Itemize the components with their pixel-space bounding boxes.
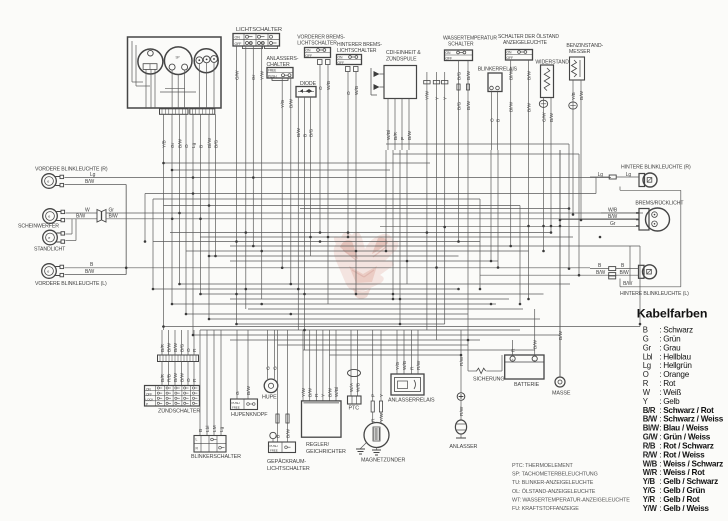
svg-text:HINTERER BREMS-: HINTERER BREMS-: [337, 42, 382, 48]
svg-text:SP: TACHOMETERBELEUCHTUNG: SP: TACHOMETERBELEUCHTUNG: [512, 472, 598, 478]
svg-text:W/R: W/R: [643, 468, 658, 477]
svg-text:Gelb / Schwarz: Gelb / Schwarz: [663, 477, 718, 486]
svg-text:R/B: R/B: [166, 374, 172, 382]
svg-text::: :: [659, 361, 661, 370]
svg-text:Orange: Orange: [663, 370, 690, 379]
svg-text:ON: ON: [146, 387, 151, 391]
svg-text:B/R: B/R: [393, 131, 399, 140]
svg-text:OFF: OFF: [446, 57, 453, 61]
svg-text:ZÜNDSCHALTER: ZÜNDSCHALTER: [158, 407, 200, 414]
svg-text:ON: ON: [446, 51, 452, 55]
svg-text:GEICHRICHTER: GEICHRICHTER: [306, 449, 346, 455]
svg-text:Lg: Lg: [191, 142, 197, 148]
svg-text:B/W: B/W: [285, 428, 291, 438]
svg-text:R/W: R/W: [643, 450, 658, 459]
svg-text:B/W: B/W: [643, 415, 658, 424]
svg-text:G/W: G/W: [643, 433, 659, 442]
svg-text:ANZEIGELEUCHTE: ANZEIGELEUCHTE: [503, 40, 548, 46]
svg-text:Schwarz: Schwarz: [663, 326, 693, 335]
svg-text:R/W: R/W: [416, 360, 422, 370]
svg-text:LICHTSCHALTER: LICHTSCHALTER: [267, 466, 310, 472]
svg-text:G: G: [235, 391, 241, 395]
svg-text:Lg: Lg: [219, 426, 225, 432]
svg-text:Y/G: Y/G: [395, 361, 401, 370]
svg-text::: :: [659, 459, 661, 468]
svg-text:Blau / Weiss: Blau / Weiss: [663, 424, 709, 433]
svg-text:B/G: B/G: [456, 101, 462, 110]
svg-text:Y/W: Y/W: [379, 412, 385, 422]
svg-text:Y/W: Y/W: [643, 504, 658, 513]
svg-text:W/B: W/B: [355, 383, 361, 392]
svg-text:e: e: [48, 236, 50, 240]
svg-text:Y/R: Y/R: [643, 495, 656, 504]
svg-text:O: O: [186, 378, 192, 382]
svg-text:Y/W: Y/W: [301, 387, 307, 397]
svg-text:WT: WASSERTEMPERATUR-ANZEIGELE: WT: WASSERTEMPERATUR-ANZEIGELEUCHTE: [512, 497, 630, 503]
svg-text::: :: [659, 370, 661, 379]
svg-text:B: B: [495, 119, 501, 122]
svg-text:VORDERE BLINKLEUCHTE (R): VORDERE BLINKLEUCHTE (R): [35, 167, 108, 173]
svg-text:OFF: OFF: [507, 56, 514, 60]
svg-text::: :: [659, 352, 661, 361]
svg-text:B/W: B/W: [166, 342, 172, 352]
svg-text:ON: ON: [306, 49, 312, 53]
svg-text::: :: [659, 406, 661, 415]
svg-text:LICHTSCHALTER: LICHTSCHALTER: [236, 27, 282, 33]
svg-text:LOCK: LOCK: [146, 398, 154, 402]
svg-text:Lg: Lg: [626, 172, 632, 178]
svg-text::: :: [659, 477, 661, 486]
svg-text:O: O: [346, 91, 352, 95]
svg-text:W/B: W/B: [326, 81, 332, 90]
svg-text:BREMS/RÜCKLICHT: BREMS/RÜCKLICHT: [635, 200, 684, 207]
svg-text:W/B: W/B: [402, 361, 408, 370]
svg-text:B/R: B/R: [643, 406, 656, 415]
svg-text:Grün / Weiss: Grün / Weiss: [663, 433, 711, 442]
svg-text::: :: [659, 326, 661, 335]
svg-text:G/W: G/W: [541, 112, 547, 122]
svg-text:ANLASSER: ANLASSER: [449, 444, 477, 450]
svg-text:Y/G: Y/G: [643, 486, 656, 495]
svg-text:ZÜNDSPULE: ZÜNDSPULE: [386, 55, 417, 62]
svg-text:MASSE: MASSE: [552, 391, 571, 397]
svg-text:ANLASSERRELAIS: ANLASSERRELAIS: [388, 398, 435, 404]
svg-text:Gr: Gr: [610, 221, 616, 227]
svg-text:B/W: B/W: [526, 70, 532, 80]
svg-text:B: B: [302, 134, 308, 137]
svg-text:Weiss / Rot: Weiss / Rot: [663, 468, 705, 477]
svg-text:OFF: OFF: [306, 54, 313, 58]
svg-text::: :: [659, 433, 661, 442]
svg-text::: :: [659, 495, 661, 504]
svg-text:B/W: B/W: [289, 98, 295, 108]
svg-text:B/W: B/W: [579, 90, 585, 100]
svg-text:Y/W: Y/W: [425, 90, 431, 100]
svg-text:e: e: [48, 215, 50, 219]
svg-text:STANDLICHT: STANDLICHT: [34, 247, 66, 253]
svg-text:Bl/W: Bl/W: [509, 101, 515, 112]
svg-text:ON: ON: [338, 56, 344, 60]
svg-text:B/W: B/W: [246, 385, 252, 395]
svg-text:ON: ON: [507, 51, 513, 55]
svg-text:O: O: [318, 86, 324, 90]
svg-text:BLINKERRELAIS: BLINKERRELAIS: [478, 67, 518, 73]
svg-text:B/W: B/W: [549, 112, 555, 122]
svg-text:P: P: [400, 137, 406, 140]
svg-text:Y/B: Y/B: [643, 477, 656, 486]
svg-text::: :: [659, 343, 661, 352]
svg-text:TU: BLINKER-ANZEIGELEUCHTE: TU: BLINKER-ANZEIGELEUCHTE: [512, 480, 594, 486]
svg-text:B/W: B/W: [76, 214, 86, 220]
svg-text:REGLER/: REGLER/: [306, 442, 330, 448]
svg-text:FREE: FREE: [270, 448, 278, 452]
svg-text:WASSERTEMPERATUR: WASSERTEMPERATUR: [443, 36, 497, 42]
svg-text:B/W: B/W: [623, 281, 633, 287]
svg-text:O: O: [489, 118, 495, 122]
svg-text:SP: SP: [176, 56, 180, 60]
svg-text:FU: KRAFTSTOFFANZEIGE: FU: KRAFTSTOFFANZEIGE: [512, 506, 579, 512]
svg-text:B/W: B/W: [173, 372, 179, 382]
svg-text::: :: [659, 504, 661, 513]
svg-text:W/Bl: W/Bl: [334, 387, 340, 397]
svg-text:Rot / Schwarz: Rot / Schwarz: [663, 441, 714, 450]
svg-text:ON: ON: [235, 36, 241, 40]
svg-text:CDI-EINHEIT &: CDI-EINHEIT &: [386, 50, 421, 56]
svg-text:R: R: [192, 378, 198, 382]
svg-text:B/G: B/G: [179, 343, 185, 352]
svg-text:B/R: B/R: [160, 373, 166, 382]
svg-text::: :: [659, 415, 661, 424]
svg-text:B/W: B/W: [173, 342, 179, 352]
svg-text:B/W: B/W: [596, 270, 606, 276]
svg-text:LICHTSCHALTER: LICHTSCHALTER: [297, 41, 337, 47]
svg-text:Lbl: Lbl: [643, 352, 653, 361]
svg-text::: :: [659, 379, 661, 388]
svg-text::: :: [659, 441, 661, 450]
svg-text:Rot / Weiss: Rot / Weiss: [663, 450, 705, 459]
svg-text:MESSER: MESSER: [569, 49, 591, 55]
svg-text:Y/B: Y/B: [571, 92, 577, 100]
svg-text:B/R: B/R: [160, 343, 166, 352]
svg-text:GEPÄCKRAUM-: GEPÄCKRAUM-: [267, 458, 306, 465]
svg-text:LICHTSCHALTER: LICHTSCHALTER: [337, 48, 377, 54]
svg-text:W/Bl: W/Bl: [386, 130, 392, 140]
svg-text:B: B: [643, 326, 648, 335]
svg-text:Rot: Rot: [663, 379, 676, 388]
svg-text:BATTERIE: BATTERIE: [514, 382, 540, 388]
svg-text:R/W: R/W: [459, 406, 465, 416]
svg-text:O: O: [184, 144, 190, 148]
svg-text:OFF: OFF: [146, 392, 152, 396]
svg-text:Lg: Lg: [643, 361, 651, 370]
svg-text::: :: [659, 468, 661, 477]
svg-text:Gelb / Grün: Gelb / Grün: [663, 486, 705, 495]
svg-text:SCHALTER: SCHALTER: [448, 42, 474, 48]
svg-text:LM: LM: [212, 425, 218, 432]
svg-text:Bl/W: Bl/W: [643, 424, 660, 433]
svg-text:PUSH: PUSH: [268, 74, 277, 78]
svg-text:Gr: Gr: [251, 74, 257, 80]
svg-text::: :: [659, 486, 661, 495]
svg-text:P: P: [371, 394, 377, 397]
svg-text:Grün: Grün: [663, 334, 681, 343]
svg-text:PTC: THERMOELEMENT: PTC: THERMOELEMENT: [512, 463, 574, 469]
svg-text:VORDERER BREMS-: VORDERER BREMS-: [297, 34, 345, 40]
svg-text:L: L: [196, 438, 198, 442]
svg-text:B/W: B/W: [85, 269, 95, 275]
svg-text:B/W: B/W: [533, 339, 539, 349]
svg-text:B/G: B/G: [308, 128, 314, 137]
svg-text:B/G: B/G: [456, 71, 462, 80]
svg-text:Gr: Gr: [109, 208, 115, 214]
svg-text:MAGNETZÜNDER: MAGNETZÜNDER: [361, 457, 406, 464]
svg-text:SCHEINWERFER: SCHEINWERFER: [18, 224, 59, 230]
svg-text:OFF: OFF: [235, 42, 243, 46]
svg-text:B/W: B/W: [466, 100, 472, 110]
svg-text::: :: [659, 450, 661, 459]
svg-text:B/W: B/W: [177, 138, 183, 148]
svg-text:W/B: W/B: [643, 459, 658, 468]
svg-text:R: R: [409, 366, 415, 370]
svg-text:G/W: G/W: [234, 70, 240, 80]
svg-text:OFF: OFF: [338, 61, 345, 65]
svg-text:O: O: [643, 370, 649, 379]
svg-text:FREE: FREE: [232, 405, 240, 409]
svg-text:B/W: B/W: [327, 387, 333, 397]
svg-text:G: G: [265, 366, 271, 370]
svg-text:W: W: [85, 208, 90, 214]
svg-text:Gelb / Weiss: Gelb / Weiss: [663, 504, 709, 513]
svg-text:P: P: [146, 403, 148, 407]
svg-text:B: B: [198, 429, 204, 432]
svg-text:Gr: Gr: [170, 142, 176, 148]
svg-text:B/W: B/W: [85, 179, 95, 185]
svg-text:R: R: [643, 379, 649, 388]
svg-text:B/W: B/W: [526, 102, 532, 112]
svg-text:R: R: [192, 348, 198, 352]
svg-text:BENZINSTAND-: BENZINSTAND-: [566, 43, 603, 49]
svg-text:R: R: [371, 418, 377, 422]
svg-text:B/G: B/G: [213, 139, 219, 148]
svg-text:Lg: Lg: [598, 172, 604, 178]
svg-text:B/W: B/W: [620, 270, 630, 276]
svg-text:Bl/W: Bl/W: [207, 137, 213, 148]
svg-text:HINTERE BLINKLEUCHTE (R): HINTERE BLINKLEUCHTE (R): [621, 164, 691, 170]
svg-text:PTC: PTC: [349, 406, 360, 412]
svg-text:e: e: [47, 270, 49, 274]
svg-text:Schwarz / Rot: Schwarz / Rot: [663, 406, 714, 415]
svg-text:W/B: W/B: [354, 86, 360, 95]
svg-text:Gr: Gr: [643, 343, 652, 352]
svg-text:FREE: FREE: [268, 69, 276, 73]
svg-text::: :: [659, 397, 661, 406]
svg-text:B/W: B/W: [109, 214, 119, 220]
svg-text:VORDERE BLINKLEUCHTE (L): VORDERE BLINKLEUCHTE (L): [35, 281, 107, 287]
svg-text:Grau: Grau: [663, 343, 681, 352]
svg-text:W/A: W/A: [349, 382, 355, 392]
svg-text:Y/B: Y/B: [161, 140, 167, 148]
svg-text:HUPENKNOPF: HUPENKNOPF: [231, 412, 268, 418]
svg-text:BLINKERSCHALTER: BLINKERSCHALTER: [191, 454, 241, 460]
svg-text:B/W: B/W: [608, 214, 618, 220]
svg-text:Hellblau: Hellblau: [663, 352, 691, 361]
svg-text:Weiß: Weiß: [663, 388, 681, 397]
svg-text::: :: [659, 334, 661, 343]
svg-text:B: B: [198, 145, 204, 148]
svg-text:Y/G: Y/G: [280, 99, 286, 108]
svg-text:R: R: [314, 393, 320, 397]
svg-text:Gelb: Gelb: [663, 397, 680, 406]
svg-text::: :: [659, 388, 661, 397]
svg-text:Lbl: Lbl: [205, 426, 211, 432]
svg-text:W: W: [643, 388, 651, 397]
svg-text:B/W: B/W: [296, 127, 302, 137]
svg-text:W/B: W/B: [608, 208, 618, 214]
svg-text:B/W: B/W: [308, 387, 314, 397]
svg-text:Weiss / Schwarz: Weiss / Schwarz: [663, 459, 723, 468]
svg-text:+: +: [512, 358, 514, 362]
svg-text:R/B: R/B: [643, 441, 656, 450]
svg-text:Lg: Lg: [90, 172, 96, 178]
svg-text:B/W: B/W: [179, 372, 185, 382]
svg-text::: :: [659, 424, 661, 433]
svg-text:Schwarz / Weiss: Schwarz / Weiss: [663, 415, 724, 424]
svg-text:SICHERUNG: SICHERUNG: [473, 377, 504, 383]
svg-text:SCHALTER DER ÖLSTAND: SCHALTER DER ÖLSTAND: [498, 33, 559, 40]
svg-text:OL: ÖLSTAND-ANZEIGELEUCHTE: OL: ÖLSTAND-ANZEIGELEUCHTE: [512, 488, 596, 495]
svg-text:Kabelfarben: Kabelfarben: [637, 307, 708, 321]
svg-text:B/W: B/W: [466, 70, 472, 80]
svg-text:HUPE: HUPE: [262, 395, 277, 401]
svg-text:Hellgrün: Hellgrün: [663, 361, 692, 370]
svg-text:O: O: [186, 348, 192, 352]
svg-text:HINTERE BLINKLEUCHTE (L): HINTERE BLINKLEUCHTE (L): [620, 291, 689, 297]
svg-text:B/W: B/W: [407, 130, 413, 140]
svg-text:G: G: [643, 334, 649, 343]
svg-text:R/W: R/W: [459, 356, 465, 366]
svg-text:e: e: [47, 180, 49, 184]
svg-text:Y/W: Y/W: [260, 70, 266, 80]
svg-text:Gelb / Rot: Gelb / Rot: [663, 495, 700, 504]
